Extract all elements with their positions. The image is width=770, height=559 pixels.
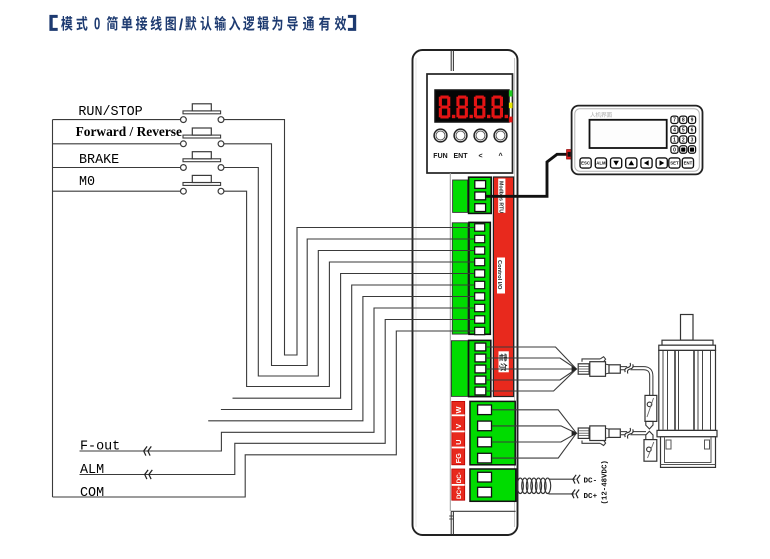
svg-text:W: W	[454, 406, 463, 413]
svg-text:0: 0	[94, 15, 100, 34]
svg-text:Control I/O: Control I/O	[496, 260, 502, 290]
svg-text:M0: M0	[79, 175, 95, 190]
svg-text:3: 3	[691, 138, 694, 144]
svg-text:ALM: ALM	[596, 161, 606, 166]
svg-text:U: U	[454, 440, 463, 445]
svg-text:DC-: DC-	[584, 478, 598, 486]
svg-text:9: 9	[691, 118, 694, 124]
svg-text:V: V	[454, 424, 463, 429]
svg-text:^: ^	[498, 152, 502, 160]
svg-text:5: 5	[682, 128, 685, 134]
svg-text:ALM: ALM	[80, 463, 104, 478]
svg-text:FG: FG	[454, 453, 463, 464]
svg-text:SET: SET	[670, 161, 679, 166]
svg-text:/: /	[179, 17, 184, 34]
svg-text:0: 0	[673, 147, 676, 153]
svg-text:COM: COM	[80, 486, 104, 501]
svg-text:2: 2	[682, 138, 685, 144]
svg-text:Forward / Reverse: Forward / Reverse	[76, 124, 182, 139]
svg-text:FUN: FUN	[433, 153, 447, 160]
svg-text:4: 4	[673, 128, 676, 134]
svg-text:8: 8	[682, 118, 685, 124]
svg-text:ESC: ESC	[581, 161, 590, 166]
svg-text:7: 7	[673, 118, 676, 124]
svg-text:6: 6	[691, 128, 694, 134]
svg-text:(12-48VDC): (12-48VDC)	[602, 460, 610, 504]
svg-text:BRAKE: BRAKE	[79, 153, 119, 168]
svg-text:F-out: F-out	[80, 440, 120, 455]
svg-text:ENT: ENT	[684, 161, 693, 166]
svg-text:<: <	[478, 153, 482, 160]
svg-text:1: 1	[673, 138, 676, 144]
svg-text:RUN/STOP: RUN/STOP	[78, 105, 142, 120]
svg-text:DC-: DC-	[456, 472, 463, 483]
svg-text:DC+: DC+	[584, 493, 598, 501]
svg-text:ENT: ENT	[454, 153, 469, 160]
svg-text:DC+: DC+	[456, 486, 463, 499]
